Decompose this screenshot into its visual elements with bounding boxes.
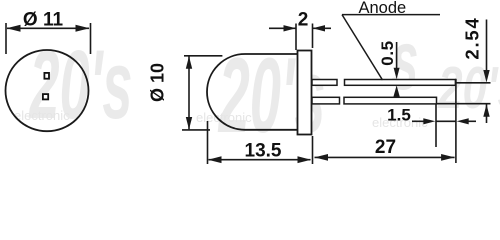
- svg-text:0.5: 0.5: [378, 40, 397, 65]
- top view cathode pad: [43, 94, 48, 99]
- dimension 13.5: right arrowhead: [298, 156, 312, 163]
- watermark 20's #1: [28, 14, 500, 156]
- dimension D11: right arrowhead: [76, 25, 90, 32]
- dimension 1.5: right extension line (long, shared with 27): [455, 79, 457, 163]
- svg-text:20's: 20's: [437, 56, 500, 122]
- dimension D10: top arrowhead: [186, 56, 192, 68]
- svg-text:2.54: 2.54: [462, 16, 483, 59]
- dimension 2: right arrowhead: [313, 25, 326, 31]
- svg-text:Ø 11: Ø 11: [23, 10, 64, 31]
- svg-text:1.5: 1.5: [387, 106, 411, 125]
- LED side view: body dome and cylinder: [207, 54, 298, 130]
- dimension 2.54: top extension line: [437, 20, 491, 124]
- watermark electronic #1: [14, 108, 428, 130]
- dimension 13.5: dimension line: [209, 159, 311, 161]
- dimension 27: right arrowhead: [441, 154, 455, 161]
- dimension 1.5: right leader line: [467, 120, 476, 122]
- Anode leader line: [342, 15, 383, 80]
- dimension D11: dimension line: [7, 27, 89, 29]
- dimension 1.5: left extension line: [412, 79, 476, 163]
- anode lead segment 2: [345, 80, 456, 86]
- dimension 27: left arrowhead: [315, 154, 329, 161]
- dimension 0.5: up arrowhead: [393, 85, 399, 97]
- dimension D10: bottom arrowhead: [186, 117, 192, 130]
- anode lead segment 1: [312, 80, 337, 86]
- LED side view: flange: [298, 51, 312, 135]
- dimension 0.5: dimension line above: [396, 42, 398, 71]
- dimension D10: extension ticks: [182, 56, 222, 130]
- svg-text:13.5: 13.5: [245, 141, 282, 162]
- svg-text:electronic: electronic: [14, 108, 70, 123]
- dimension 1.5: left leader line: [412, 120, 425, 122]
- svg-text:2: 2: [298, 10, 309, 31]
- dimension D11: extension lines: [6, 23, 91, 54]
- dimension 1.5: left arrowhead: [423, 118, 435, 124]
- dimension D10: dimension line: [188, 57, 190, 130]
- dimension D11: left arrowhead: [7, 25, 21, 32]
- dimension 27: dimension line: [315, 156, 455, 158]
- dimension 13.5/27 shared extension line: [312, 136, 314, 164]
- dimension 2: left arrowhead: [284, 25, 297, 31]
- cathode lead segment 2: [344, 97, 437, 104]
- dimension 2.54: dimension line lower: [486, 105, 488, 124]
- dimension 13.5: left extension line: [208, 121, 313, 164]
- dimension 2.54: dimension line upper: [486, 20, 488, 74]
- svg-text:Ø 10: Ø 10: [148, 63, 168, 102]
- dimension 1.5: right arrowhead: [457, 118, 469, 124]
- Anode label underline: [342, 14, 440, 16]
- dimension 2.54: down arrowhead: [483, 70, 489, 83]
- dimension 2: left leader line: [269, 27, 296, 29]
- dimension 2.54: bottom extension line: [437, 103, 491, 105]
- dimension 0.5: down arrowhead: [394, 68, 400, 80]
- dimension 2: right leader line: [313, 27, 331, 29]
- cathode lead segment 1: [312, 97, 340, 104]
- dimension 13.5: left arrowhead: [208, 156, 222, 163]
- top view anode pad: [44, 73, 49, 79]
- svg-text:27: 27: [375, 137, 396, 158]
- dimension 2.54: up arrowhead: [483, 104, 489, 117]
- dimension 2 (flange width): extension lines: [269, 24, 331, 51]
- LED top view: package circle: [6, 50, 89, 131]
